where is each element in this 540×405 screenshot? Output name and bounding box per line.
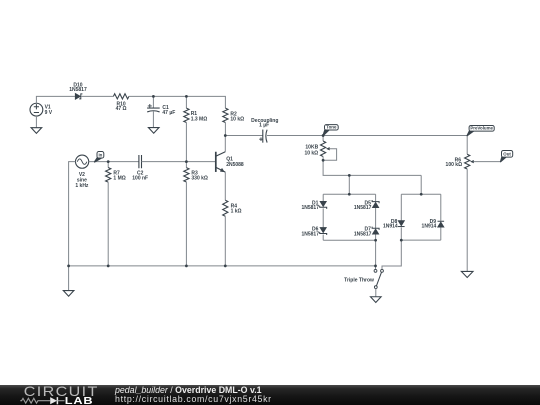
wire R1 to base node: [185, 123, 187, 162]
wire D10 to R10: [81, 95, 113, 97]
svg-text:47 Ω: 47 Ω: [116, 106, 127, 112]
node collector junction: [224, 134, 227, 137]
ground left rail: [63, 291, 74, 297]
diode D1 1N5817: [320, 201, 327, 206]
svg-text:Out: Out: [503, 152, 511, 157]
transistor Q1 2N5088: [215, 152, 217, 172]
flag Tone: [323, 129, 329, 135]
flag PreVolume: [467, 131, 473, 136]
node pot bottom junction: [322, 159, 325, 162]
wire left group right branch: [375, 194, 377, 201]
wire tone pot stem: [322, 136, 324, 142]
wire R6 to ground: [466, 169, 468, 271]
voltage source V1 9V: [30, 103, 43, 116]
wire R3 to rail: [185, 182, 187, 266]
wire collector: [224, 136, 226, 152]
svg-text:1N914: 1N914: [383, 223, 398, 229]
wire C1 to ground: [152, 111, 154, 127]
wire left group left branch: [322, 194, 324, 201]
wire rail to switch throw A: [375, 266, 377, 270]
switch Triple Throw: [374, 269, 377, 272]
pot wiper arrow: [326, 147, 330, 150]
svg-text:1 kΩ: 1 kΩ: [231, 209, 242, 215]
footer bar: [0, 385, 540, 405]
svg-text:100 kΩ: 100 kΩ: [446, 162, 463, 168]
wire right group to switch throw: [382, 240, 401, 269]
svg-text:1N914: 1N914: [422, 223, 437, 229]
svg-text:10 kΩ: 10 kΩ: [304, 150, 318, 156]
node left group bottom junction: [374, 239, 377, 242]
resistor R4 1k: [223, 200, 228, 216]
wire C2 to base junction: [142, 161, 187, 163]
flag In: [95, 157, 102, 162]
wire left group to switch: [375, 240, 377, 266]
CircuitLab logo: [0, 385, 100, 405]
wire emitter to R4: [224, 172, 226, 200]
wire C1 stem: [152, 96, 154, 108]
wire left group top rail: [323, 193, 375, 195]
capacitor Decoupling 1uF: [262, 130, 264, 143]
wire corner to R6: [466, 136, 468, 155]
capacitor C1 47uF: [147, 107, 160, 109]
potentiometer 10KB 10k: [321, 141, 326, 157]
diode D8 1N914: [398, 221, 405, 226]
node rail left junction: [67, 264, 70, 267]
node left group top junction: [348, 193, 351, 196]
wire V2 to R7 node: [89, 161, 109, 163]
wire R3 stem: [185, 162, 187, 168]
svg-text:1N5817: 1N5817: [301, 205, 319, 211]
resistor R2 10k: [223, 108, 228, 122]
wire R7 to rail: [107, 182, 109, 266]
svg-text:1N5817: 1N5817: [354, 232, 372, 238]
wire V1 to D10: [36, 96, 75, 103]
node feed split junction: [348, 174, 351, 177]
svg-text:1 MΩ: 1 MΩ: [113, 176, 125, 182]
wire R2 to collector node: [224, 123, 226, 136]
wire collector node to cap: [225, 135, 263, 137]
diode D10 1N5817: [75, 93, 80, 99]
svg-text:1N5817: 1N5817: [69, 87, 87, 93]
diode D9 1N914: [438, 222, 445, 227]
ground for switch: [371, 297, 382, 303]
svg-text:47 µF: 47 µF: [162, 110, 175, 116]
node R3 rail junction: [185, 264, 188, 267]
wire pot to feed corner: [323, 160, 421, 175]
ground for C1: [148, 128, 159, 134]
ground for R6: [461, 271, 473, 277]
svg-text:1.3 MΩ: 1.3 MΩ: [191, 116, 208, 122]
node Tone junction: [322, 134, 325, 137]
node R7 top junction: [107, 160, 110, 163]
svg-text:Triple Throw: Triple Throw: [344, 277, 374, 283]
svg-text:10 kΩ: 10 kΩ: [230, 117, 244, 123]
wire R7node to C2: [108, 161, 138, 163]
node R4 rail junction: [224, 264, 227, 267]
wire feed to right group: [420, 175, 422, 194]
ground for V1: [35, 116, 37, 128]
wire R10 to R2 corner: [129, 96, 226, 108]
resistor R10 47 ohm: [113, 94, 128, 99]
wire split to left group: [348, 175, 350, 194]
node switch rail junction: [374, 264, 377, 267]
potentiometer R6 100k: [465, 154, 470, 169]
diode D7 1N5817: [372, 229, 379, 234]
wire V2 left down to rail: [69, 162, 76, 266]
flag Out: [501, 157, 506, 162]
svg-text:1 kHz: 1 kHz: [75, 183, 89, 189]
node base junction: [185, 160, 188, 163]
svg-text:1 µF: 1 µF: [259, 123, 269, 129]
svg-text:9 V: 9 V: [45, 110, 53, 116]
svg-text:1N5817: 1N5817: [354, 205, 372, 211]
capacitor C2 100nF: [139, 155, 142, 168]
wire right group right branch: [440, 194, 442, 221]
resistor R3 330k: [184, 168, 189, 182]
wire right group top rail: [401, 193, 441, 195]
svg-text:Tone: Tone: [326, 125, 337, 130]
resistor R1 1.3M: [184, 108, 189, 122]
footer title text: [115, 385, 262, 395]
footer url text: [115, 394, 272, 404]
svg-text:LAB: LAB: [65, 396, 94, 405]
wire right group bottom rail: [401, 239, 441, 241]
resistor R7 1M: [106, 168, 111, 183]
wire R7 stem: [107, 162, 109, 168]
wire rail to left ground: [68, 266, 70, 291]
wire left group bottom rail: [323, 239, 375, 241]
node R1 top junction: [185, 95, 188, 98]
svg-text:100 nF: 100 nF: [132, 176, 148, 182]
voltage source V2 sine: [76, 155, 89, 168]
R6 wiper arrow: [470, 160, 474, 163]
svg-text:PreVolume: PreVolume: [470, 126, 493, 131]
diode D5 1N5817: [372, 202, 379, 207]
wire R4 to rail: [224, 216, 226, 266]
node R7 rail junction: [107, 264, 110, 267]
wire right group left branch: [400, 194, 402, 220]
svg-text:In: In: [98, 153, 102, 158]
wire ground rail: [69, 265, 376, 267]
node right group top junction: [420, 193, 423, 196]
wire R1 top: [185, 96, 187, 108]
wire cap to PreVolume corner: [267, 135, 467, 137]
svg-text:330 kΩ: 330 kΩ: [191, 176, 208, 182]
node right group bottom junction: [400, 239, 403, 242]
node C1 junction: [152, 95, 155, 98]
diode D6 1N5817: [320, 227, 327, 232]
wire switch to ground: [375, 289, 377, 297]
wire base junction to Q1: [186, 161, 215, 163]
svg-text:1N5817: 1N5817: [301, 232, 319, 238]
svg-text:2N5088: 2N5088: [226, 162, 244, 168]
